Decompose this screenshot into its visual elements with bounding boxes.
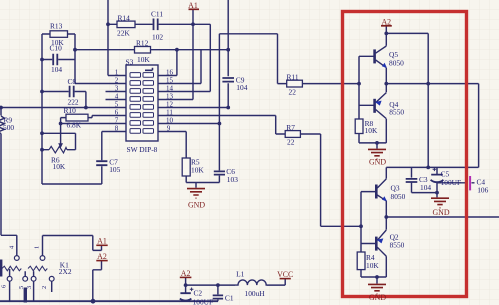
svg-text:1: 1 xyxy=(115,68,119,76)
svg-text:S3: S3 xyxy=(126,57,134,66)
wire A2 row y33.4 into right column xyxy=(386,33,428,167)
wire Q4 collector lead xyxy=(385,119,387,143)
svg-text:10: 10 xyxy=(166,116,174,124)
svg-text:5: 5 xyxy=(115,100,119,108)
svg-text:104: 104 xyxy=(51,65,62,74)
switch S3 actuator mark xyxy=(145,68,153,71)
wire pin12 to C9 vertical x228.2 xyxy=(158,0,228,108)
resistor R4 xyxy=(357,252,365,270)
svg-text:8550: 8550 xyxy=(390,241,405,250)
connector K1 contact zigzag left xyxy=(2,266,21,271)
wire R13 leads y34 xyxy=(42,33,75,35)
svg-text:8050: 8050 xyxy=(389,59,404,68)
svg-text:SW DIP-8: SW DIP-8 xyxy=(127,145,158,154)
wire Q3 collector corner xyxy=(385,167,387,178)
connector K1 circle bottom4 xyxy=(49,276,54,281)
svg-text:3: 3 xyxy=(26,286,33,289)
wire top link y33.8 to R11 xyxy=(219,34,286,84)
svg-text:3: 3 xyxy=(115,84,119,92)
power port VCC bar xyxy=(280,278,291,280)
svg-text:103: 103 xyxy=(227,175,238,184)
transistor Q5 xyxy=(375,46,387,68)
svg-text:2X2: 2X2 xyxy=(59,267,72,276)
wire A2 top stub x386.3 xyxy=(385,26,387,33)
wire pin7 row xyxy=(61,123,126,125)
svg-text:10K: 10K xyxy=(191,166,204,175)
svg-text:12: 12 xyxy=(166,100,174,108)
capacitor C7 plates xyxy=(96,161,107,165)
wire Q3/Q2 base column x361 xyxy=(361,192,376,252)
capacitor C8 plates xyxy=(70,86,74,97)
svg-text:C1: C1 xyxy=(225,294,234,303)
wire pin13 riser to A1 xyxy=(158,10,193,100)
wire C3/C5 bottom row y192.6 xyxy=(412,192,438,194)
svg-text:R10: R10 xyxy=(64,106,77,115)
svg-text:A2: A2 xyxy=(97,252,107,261)
wire pin3 stub xyxy=(106,91,127,93)
resistor R12 xyxy=(135,47,151,54)
wire R5/C6 bottom row y182.5 xyxy=(186,183,219,188)
wire R14/C11/A1 row y24.3 xyxy=(108,23,210,25)
svg-text:104: 104 xyxy=(420,183,431,192)
svg-text:500: 500 xyxy=(3,123,14,132)
power port A2 top-right bar xyxy=(381,25,392,27)
capacitor C5 plus sign xyxy=(433,168,437,172)
resistor R14 xyxy=(117,21,135,28)
wire left bus to pin5 y107.5 xyxy=(1,107,126,109)
svg-text:R11: R11 xyxy=(287,73,299,82)
svg-text:GND: GND xyxy=(432,208,449,217)
svg-text:11: 11 xyxy=(166,108,173,116)
wire vertical x108 top feed to pin1 xyxy=(108,0,126,76)
svg-text:14: 14 xyxy=(166,84,174,92)
wire K1 top row y235.5 xyxy=(43,236,93,256)
wire R10 left and wiper drop x60.6 xyxy=(61,118,66,144)
resistor R9 zigzag at edge xyxy=(0,116,4,134)
svg-text:22: 22 xyxy=(289,88,297,97)
wire C10 row y59.5 xyxy=(42,59,75,61)
capacitor C10 plates xyxy=(53,54,57,65)
wire vertical x75 R13 right to pin2 xyxy=(75,34,126,84)
resistor R8 xyxy=(355,119,363,134)
wire K1 right path to A1/A2 stubs xyxy=(93,236,102,302)
resistor R11 xyxy=(287,80,303,87)
svg-text:A2: A2 xyxy=(381,17,391,26)
svg-text:R12: R12 xyxy=(136,39,149,48)
svg-text:100UF: 100UF xyxy=(441,178,462,187)
wire vertical x219.4 through C6 xyxy=(218,34,220,183)
svg-text:105: 105 xyxy=(109,165,120,174)
connector K1 thick bar pin xyxy=(24,288,27,303)
svg-text:A1: A1 xyxy=(97,237,107,246)
wire pin11 to R7 xyxy=(158,116,285,135)
svg-text:106: 106 xyxy=(477,185,488,194)
power port A2 bottom bar xyxy=(180,276,192,278)
wire pin6 to R10 right xyxy=(88,116,126,118)
wire vertical x42 main left chain xyxy=(41,34,43,184)
transistor Q3 xyxy=(376,179,386,201)
svg-text:10K: 10K xyxy=(53,162,66,171)
wire C2 vertical xyxy=(185,285,187,293)
svg-text:104: 104 xyxy=(236,83,247,92)
wire C3 vertical x411.5 xyxy=(411,167,413,192)
connector K1 circle bottom3 xyxy=(31,276,36,281)
svg-text:5: 5 xyxy=(18,286,25,289)
svg-text:C10: C10 xyxy=(50,44,63,53)
wire C1 vertical xyxy=(217,285,219,301)
ground below R4 xyxy=(368,284,386,294)
capacitor C2 plates xyxy=(180,293,192,300)
wire R6 loop xyxy=(42,133,76,149)
wire R4 bottom row y277 xyxy=(361,270,386,284)
wire Q2 collector lead xyxy=(385,256,387,277)
connector K1 circle bottom2 xyxy=(23,276,28,281)
capacitor C4 plates magenta xyxy=(466,176,470,190)
connector K1 circle bottom1 xyxy=(7,276,12,281)
svg-text:16: 16 xyxy=(166,68,174,76)
transistor Q4 xyxy=(375,93,387,119)
transistor Q5 arrow xyxy=(382,63,387,68)
svg-text:R7: R7 xyxy=(286,123,295,132)
power port A1 top bar xyxy=(189,8,200,10)
svg-text:22: 22 xyxy=(287,138,295,147)
svg-text:10K: 10K xyxy=(365,126,378,135)
capacitor C2 plus sign xyxy=(190,288,194,292)
wire pin4 stub xyxy=(106,99,127,101)
wire Q3 emitter lead xyxy=(385,201,387,217)
svg-text:GND: GND xyxy=(188,201,205,210)
svg-text:A1: A1 xyxy=(188,1,198,10)
resistor R13 xyxy=(50,31,68,38)
svg-text:L1: L1 xyxy=(236,270,245,279)
wire R7 right to Q3/Q2 base column xyxy=(300,134,361,226)
red highlight box xyxy=(343,12,467,297)
svg-text:15: 15 xyxy=(166,76,174,84)
ground below C5 xyxy=(431,198,449,208)
svg-text:C8: C8 xyxy=(68,77,77,86)
wire A2 bottom stub x185.6 xyxy=(185,277,187,285)
capacitor C6 plates xyxy=(214,171,225,174)
wire Q5/Q4 base column x359 xyxy=(359,56,374,119)
svg-text:GND: GND xyxy=(369,158,386,167)
svg-text:6: 6 xyxy=(1,285,8,288)
capacitor C1 plates xyxy=(213,295,223,298)
wire pin14 riser to A1 row xyxy=(158,24,210,91)
wire pin15 riser xyxy=(158,50,201,84)
ground below R5 xyxy=(187,189,205,199)
transistor Q4 arrow xyxy=(375,101,382,106)
svg-text:1: 1 xyxy=(34,246,41,249)
svg-text:7: 7 xyxy=(115,116,119,124)
capacitor C11 plates xyxy=(154,19,158,31)
wire C3/C5 top row y167.4 xyxy=(386,166,478,168)
svg-text:6.8K: 6.8K xyxy=(67,121,82,130)
capacitor C3 plates xyxy=(406,179,418,182)
transistor Q2 arrow xyxy=(377,238,384,243)
wire pin9 to R5 xyxy=(158,132,186,183)
svg-text:4: 4 xyxy=(115,92,119,100)
resistor R10 xyxy=(66,114,88,121)
svg-text:13: 13 xyxy=(166,92,174,100)
wire lower emitter rail y217 off right edge xyxy=(386,216,499,218)
inductor L1 xyxy=(235,280,267,285)
svg-text:10K: 10K xyxy=(137,55,150,64)
wire R9 leads and left drop x1 xyxy=(1,108,17,256)
wire R11 right to base column x359 xyxy=(302,83,359,85)
svg-text:100uH: 100uH xyxy=(245,289,266,298)
ground below R8 xyxy=(368,149,386,159)
wire Q5 emitter lead xyxy=(385,68,387,84)
wire C4 row y182.8 xyxy=(437,182,475,184)
svg-text:100UF: 100UF xyxy=(193,297,214,305)
svg-text:8: 8 xyxy=(115,124,119,132)
switch S3 DIP body xyxy=(126,65,158,141)
svg-text:A2: A2 xyxy=(181,269,191,278)
wire R8 bottom row y142.9 xyxy=(359,134,386,149)
svg-text:10K: 10K xyxy=(366,261,379,270)
connector K1 circle top-right xyxy=(40,256,45,261)
wire pin8 to C7 xyxy=(102,132,126,185)
svg-text:GND: GND xyxy=(369,293,386,302)
svg-text:C11: C11 xyxy=(151,9,163,18)
wire upper emitter rail y83.6 xyxy=(386,84,479,168)
svg-text:R14: R14 xyxy=(118,13,131,22)
wire C7 bottom row y184 xyxy=(42,183,102,185)
wire L1 row y285.1 xyxy=(186,284,286,286)
svg-text:9: 9 xyxy=(167,124,171,132)
svg-text:6: 6 xyxy=(115,108,119,116)
wire Q5 collector lead xyxy=(385,33,387,45)
svg-text:8050: 8050 xyxy=(391,192,406,201)
svg-text:VCC: VCC xyxy=(277,270,293,279)
svg-text:102: 102 xyxy=(152,33,163,42)
svg-text:C2: C2 xyxy=(194,289,203,298)
svg-text:2: 2 xyxy=(115,76,119,84)
capacitor C5 plates xyxy=(431,175,444,183)
power port A1 K1 bar xyxy=(96,244,107,246)
potentiometer R6 zigzag xyxy=(49,146,67,153)
wire pin10 row xyxy=(158,123,219,125)
switch S3 elements xyxy=(130,73,154,134)
wire pin16 riser xyxy=(158,50,177,76)
transistor Q2 xyxy=(376,230,386,256)
svg-text:22K: 22K xyxy=(117,29,130,38)
svg-text:2: 2 xyxy=(41,286,48,289)
svg-text:R13: R13 xyxy=(50,22,63,31)
potentiometer R6 wiper arrow xyxy=(58,143,63,148)
wire bottom bus y301.2 xyxy=(0,300,218,302)
wire R12 row y49.7 xyxy=(75,49,228,51)
wire Q4 emitter lead xyxy=(385,84,387,93)
wire Q2 emitter lead xyxy=(385,217,387,230)
wire C8 row y91.5 xyxy=(42,92,86,108)
connector K1 circle top-left xyxy=(14,256,19,261)
transistor Q3 arrow xyxy=(382,196,387,201)
wire K1 bottom pin stubs xyxy=(10,269,52,301)
power port A2 K1 bar xyxy=(96,260,107,262)
resistor R5 xyxy=(182,158,190,176)
resistor R7 xyxy=(285,131,300,138)
wire VCC stub xyxy=(284,279,286,286)
connector K1 contact zigzag right xyxy=(28,266,47,271)
capacitor C9 plates xyxy=(222,78,234,82)
connector K1 cut component at left edge xyxy=(0,260,2,277)
svg-text:8550: 8550 xyxy=(389,107,404,116)
wire C5 vertical x437 xyxy=(436,167,438,197)
